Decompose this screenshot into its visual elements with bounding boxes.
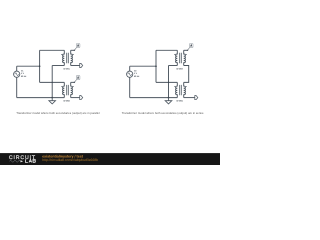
wire source top to bus [17,65,40,67]
wire source V2 bottom lead [129,77,131,97]
junction at ground rail left [51,97,53,99]
wire right primary bus vertical [155,50,157,82]
wire XFMR4 secondary bottom to output arrow [184,97,195,99]
wire XFMR1 secondary top to flag [71,49,75,51]
wire ground drop vertical right [168,66,170,98]
wire bottom rail left circuit [17,97,65,99]
CircuitLab logo wordmark [9,155,36,163]
junction at crossing right [168,82,169,83]
transformer XFMR2 [61,82,73,102]
transformer XFMR1 [61,50,73,70]
node flag A right [187,44,193,52]
junction at bus and source [39,65,41,67]
voltage source V1 [14,71,20,77]
wire XFMR3 secondary top to flag [184,49,188,51]
wire left primary bus vertical [39,50,41,82]
ground symbol right [165,98,172,104]
svg-text:http://circuitlab.com/c/abp4wd: http://circuitlab.com/c/abp4wd3z668b [42,158,98,162]
wire source V1 top lead [16,66,18,71]
wire bus to XFMR3 primary top [156,49,177,51]
svg-text:60 Hz: 60 Hz [134,75,139,78]
svg-text:Transformer model where both s: Transformer model where both secondaries… [122,111,204,115]
svg-text:XFMR4: XFMR4 [176,100,183,103]
wire XFMR1 secondary bottom to output arrow [71,65,80,67]
wire bottom rail right circuit [130,97,178,99]
wire source V2 top lead [129,66,131,71]
voltage source V2 [127,71,133,77]
wire series link XFMR3 secondary bottom to XFMR4 secondary top [184,66,189,83]
wire bus to XFMR1 primary top [40,49,65,51]
svg-text:Transformer model where both s: Transformer model where both secondaries… [16,111,100,115]
label V2 value [134,69,139,77]
wire bus to XFMR2 primary top [40,81,65,83]
junction at ground rail right [168,97,170,99]
wire XFMR2 secondary bottom to output arrow [71,97,80,99]
junction at bus and source right [155,65,157,67]
node flag A upper left [74,44,80,52]
wire source top to bus right [130,65,156,67]
wire XFMR1 primary bottom to ground drop [52,65,64,67]
wire source V1 bottom lead [16,77,18,97]
wire XFMR2 secondary top to flag [71,81,75,83]
output arrow flag lower left [80,96,83,100]
node flag A lower left [74,76,80,83]
svg-text:60 Hz: 60 Hz [21,75,26,78]
wire ground drop vertical left [51,66,53,98]
junction at crossing left [52,82,53,83]
footer bar [0,153,220,165]
wire XFMR3 primary bottom to ground drop right [169,65,178,67]
output arrow flag upper left [80,63,83,67]
ground symbol left [49,98,56,104]
wire bus to XFMR4 primary top [156,81,177,83]
output arrow flag right [195,96,198,100]
transformer XFMR4 [174,82,187,102]
label V1 value [21,69,26,77]
svg-text:XFMR3: XFMR3 [176,68,182,71]
svg-text:XFMR2: XFMR2 [63,100,69,103]
svg-text:CIRCUIT: CIRCUIT [9,155,36,161]
svg-text:XFMR1: XFMR1 [63,68,69,71]
transformer XFMR3 [174,50,187,70]
